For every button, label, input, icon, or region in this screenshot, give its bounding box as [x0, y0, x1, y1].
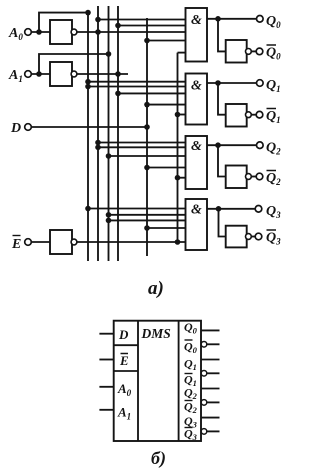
pin Q3 (block)	[201, 417, 220, 419]
wire A0 bypass up	[39, 13, 88, 32]
wire gate1 input5 from E-vertical	[178, 52, 186, 54]
wire gate3 input4 from D	[147, 167, 186, 169]
label a)	[148, 278, 164, 299]
wire gate1 input1 from B2	[98, 19, 186, 21]
pin Q2bar (block)	[207, 401, 220, 403]
svg-text:D: D	[10, 121, 21, 136]
svg-text:б): б)	[151, 448, 166, 469]
input terminal A0	[25, 29, 32, 36]
label Q0bar (block)	[184, 340, 198, 356]
label Q0 (block)	[184, 320, 198, 336]
bus B4 (nA1) vertical	[117, 6, 119, 261]
wire nA0 from inverter to gate1	[77, 31, 186, 33]
node on bus E	[175, 175, 181, 181]
cell divider under E	[114, 370, 138, 372]
label b)	[151, 448, 166, 469]
node on B2	[95, 17, 101, 23]
node gate2 output	[215, 80, 221, 86]
pin Q1 (block)	[201, 359, 220, 361]
wire gate2 input1 from B1	[88, 81, 186, 83]
wire branch to inverter U6	[218, 145, 226, 176]
node on B2	[95, 140, 101, 146]
wire gate3 input3 from B3	[109, 155, 186, 157]
DMS right column divider	[178, 321, 180, 441]
svg-text:Q2: Q2	[266, 141, 281, 157]
wire nA1 from inverter to bus B4	[77, 73, 128, 75]
node gate4 output	[216, 206, 222, 212]
DMS left column divider	[137, 321, 139, 441]
label D (block)	[118, 327, 129, 342]
wire E input	[31, 241, 50, 243]
svg-text:D: D	[118, 327, 129, 342]
wire E row to gate4	[77, 241, 186, 243]
svg-text:Q3: Q3	[266, 204, 281, 220]
label Q1bar (block)	[184, 373, 197, 389]
bus B2 (nA0) vertical	[97, 6, 99, 261]
pin Q3bar (block)	[207, 430, 220, 432]
svg-text:Q0: Q0	[266, 46, 281, 62]
pin Q2bar bubble	[201, 400, 207, 406]
inverter U3 (E) box	[50, 230, 72, 254]
label Q1	[266, 78, 281, 94]
node D on bus D	[144, 124, 150, 130]
bus B3 (A1) vertical	[108, 6, 110, 261]
inverter U7 bubble	[246, 234, 252, 240]
label DMS	[141, 326, 171, 341]
inverter U2 output bubble	[71, 71, 77, 77]
svg-text:E: E	[11, 237, 21, 252]
node on bus E	[175, 112, 181, 118]
terminal Q3	[255, 206, 262, 213]
bus D vertical	[146, 18, 148, 256]
node on B1	[85, 79, 91, 85]
label E (block, overbar)	[119, 353, 129, 368]
wire gate3 input5 from E	[178, 177, 186, 179]
terminal Q3bar	[255, 233, 262, 240]
wire gate4 output	[207, 208, 255, 210]
label Q0bar	[266, 46, 281, 62]
svg-text:&: &	[191, 203, 202, 218]
inverter U1 output bubble	[71, 29, 77, 35]
terminal Q2	[257, 142, 264, 149]
input terminal A1	[25, 71, 32, 78]
inverter U5 bubble	[246, 112, 252, 118]
inverter U3 output bubble	[71, 239, 77, 245]
input terminal D	[25, 124, 32, 131]
label Q2bar	[266, 171, 281, 187]
wire branch to inverter U4	[218, 19, 226, 52]
node on bus D	[144, 225, 150, 231]
node on B3	[106, 218, 112, 224]
node on B2	[95, 145, 101, 151]
DMS block outline	[114, 321, 201, 441]
svg-text:&: &	[191, 139, 202, 154]
pin Q1bar (block)	[207, 372, 220, 374]
label Q1 (block)	[184, 357, 197, 373]
pin Q0 (block)	[201, 329, 220, 331]
label Q2bar (block)	[184, 400, 198, 416]
inverter U6 bubble	[246, 174, 252, 180]
node nA1 on bus B4	[115, 71, 121, 77]
svg-text:E: E	[119, 353, 129, 368]
svg-text:Q2: Q2	[266, 171, 281, 187]
pin D (block)	[99, 333, 113, 335]
svg-text:&: &	[191, 13, 202, 28]
input A1 label	[8, 68, 23, 84]
wire gate1 output	[207, 18, 257, 20]
pin Q1bar bubble	[201, 371, 207, 377]
node nA0 on bus B2	[95, 29, 101, 35]
svg-text:A0: A0	[8, 26, 23, 42]
wire gate4 input2 from B3	[109, 214, 186, 216]
wire gate3 input2 from B2	[98, 146, 186, 148]
node on B3	[106, 212, 112, 218]
label Q3bar	[266, 231, 281, 247]
svg-text:Q3: Q3	[266, 231, 281, 247]
label Q0	[266, 14, 281, 30]
pin Q2 (block)	[201, 388, 220, 390]
bus B1 (A0) vertical	[87, 13, 89, 261]
input E label (with overbar)	[11, 237, 21, 252]
input terminal E	[25, 239, 32, 246]
wire to Q0bar	[251, 50, 256, 52]
pin Q0bar (block)	[207, 343, 220, 345]
wire to Q1bar	[251, 114, 256, 116]
node on B1	[85, 84, 91, 90]
inverter U7 box	[226, 226, 247, 248]
AND gate DD4	[186, 199, 208, 250]
wire gate4 input3 from B3	[109, 219, 186, 221]
wire branch to inverter U7	[219, 209, 226, 237]
pin Q0bar bubble	[201, 342, 207, 348]
node on bus D	[144, 102, 150, 108]
inverter U1 (A0) box	[50, 20, 72, 44]
label Q3	[266, 204, 281, 220]
label Q2	[266, 141, 281, 157]
svg-text:a): a)	[148, 278, 164, 299]
label Q1bar	[266, 109, 281, 125]
label Q3bar (block)	[184, 427, 198, 443]
AND gate DD1	[186, 8, 208, 62]
label A0 (block)	[117, 381, 132, 398]
wire gate4 input1 from B1	[88, 208, 186, 210]
node A0 on bus B1	[85, 10, 91, 16]
svg-text:Q0: Q0	[266, 14, 281, 30]
node on bus D	[144, 38, 150, 44]
inverter U2 (A1) box	[50, 62, 72, 86]
wire to Q2bar	[251, 176, 256, 178]
label Q3 (block)	[184, 414, 198, 430]
wire D input	[31, 126, 147, 128]
cell divider under D	[114, 344, 138, 346]
wire gate2 output	[207, 82, 257, 84]
node A0 junction	[36, 29, 42, 35]
pin E (block)	[99, 359, 113, 361]
wire gate3 input1 from B2	[98, 142, 186, 144]
AND gate DD3	[186, 136, 208, 189]
inverter U4 bubble	[246, 49, 252, 55]
svg-text:Q1: Q1	[266, 78, 281, 94]
terminal Q0bar	[256, 48, 263, 55]
bus E vertical	[177, 53, 179, 242]
node on B1	[85, 206, 91, 212]
svg-text:DMS: DMS	[141, 326, 171, 341]
terminal Q1bar	[256, 111, 263, 118]
label A1 (block)	[117, 405, 131, 422]
wire branch to inverter U5	[218, 83, 226, 115]
label Q2 (block)	[184, 386, 198, 402]
pin A1 (block)	[99, 409, 113, 411]
svg-text:Q1: Q1	[266, 109, 281, 125]
node A1 on bus B3	[106, 51, 112, 57]
wire to Q3bar	[251, 236, 255, 238]
wire A1 input	[31, 73, 50, 75]
wire gate4 input4 from D	[147, 227, 186, 229]
AND gate DD2	[186, 74, 208, 125]
node on B4	[115, 23, 121, 29]
input D label	[10, 121, 21, 136]
wire gate2 input5 from E	[178, 114, 186, 116]
pin Q3bar bubble	[201, 429, 207, 435]
wire gate1 input2 from B4	[118, 25, 186, 27]
svg-text:A1: A1	[8, 68, 23, 84]
input A0 label	[8, 26, 23, 42]
node E on E-vertical	[175, 239, 181, 245]
inverter U5 box	[226, 104, 247, 127]
inverter U6 box	[226, 166, 247, 189]
node gate3 output	[215, 142, 221, 148]
terminal Q0	[257, 15, 264, 22]
wire gate2 input2 from B1	[88, 86, 186, 88]
wire gate2 input3 from B4	[118, 92, 186, 94]
node gate1 output	[215, 16, 221, 22]
node on bus D	[144, 165, 150, 171]
svg-text:&: &	[191, 79, 202, 94]
node on B4	[115, 91, 121, 97]
wire gate1 input4 from D	[147, 40, 186, 42]
wire A0 input	[31, 31, 50, 33]
terminal Q1	[257, 80, 264, 87]
inverter U4 box	[226, 40, 247, 63]
wire A1 bypass up	[39, 54, 109, 74]
node A1 junction	[36, 71, 42, 77]
pin A0 (block)	[99, 386, 113, 388]
wire gate3 output	[207, 144, 257, 146]
terminal Q2bar	[256, 173, 263, 180]
node on B3	[106, 153, 112, 159]
wire gate2 input4 from D	[147, 104, 186, 106]
